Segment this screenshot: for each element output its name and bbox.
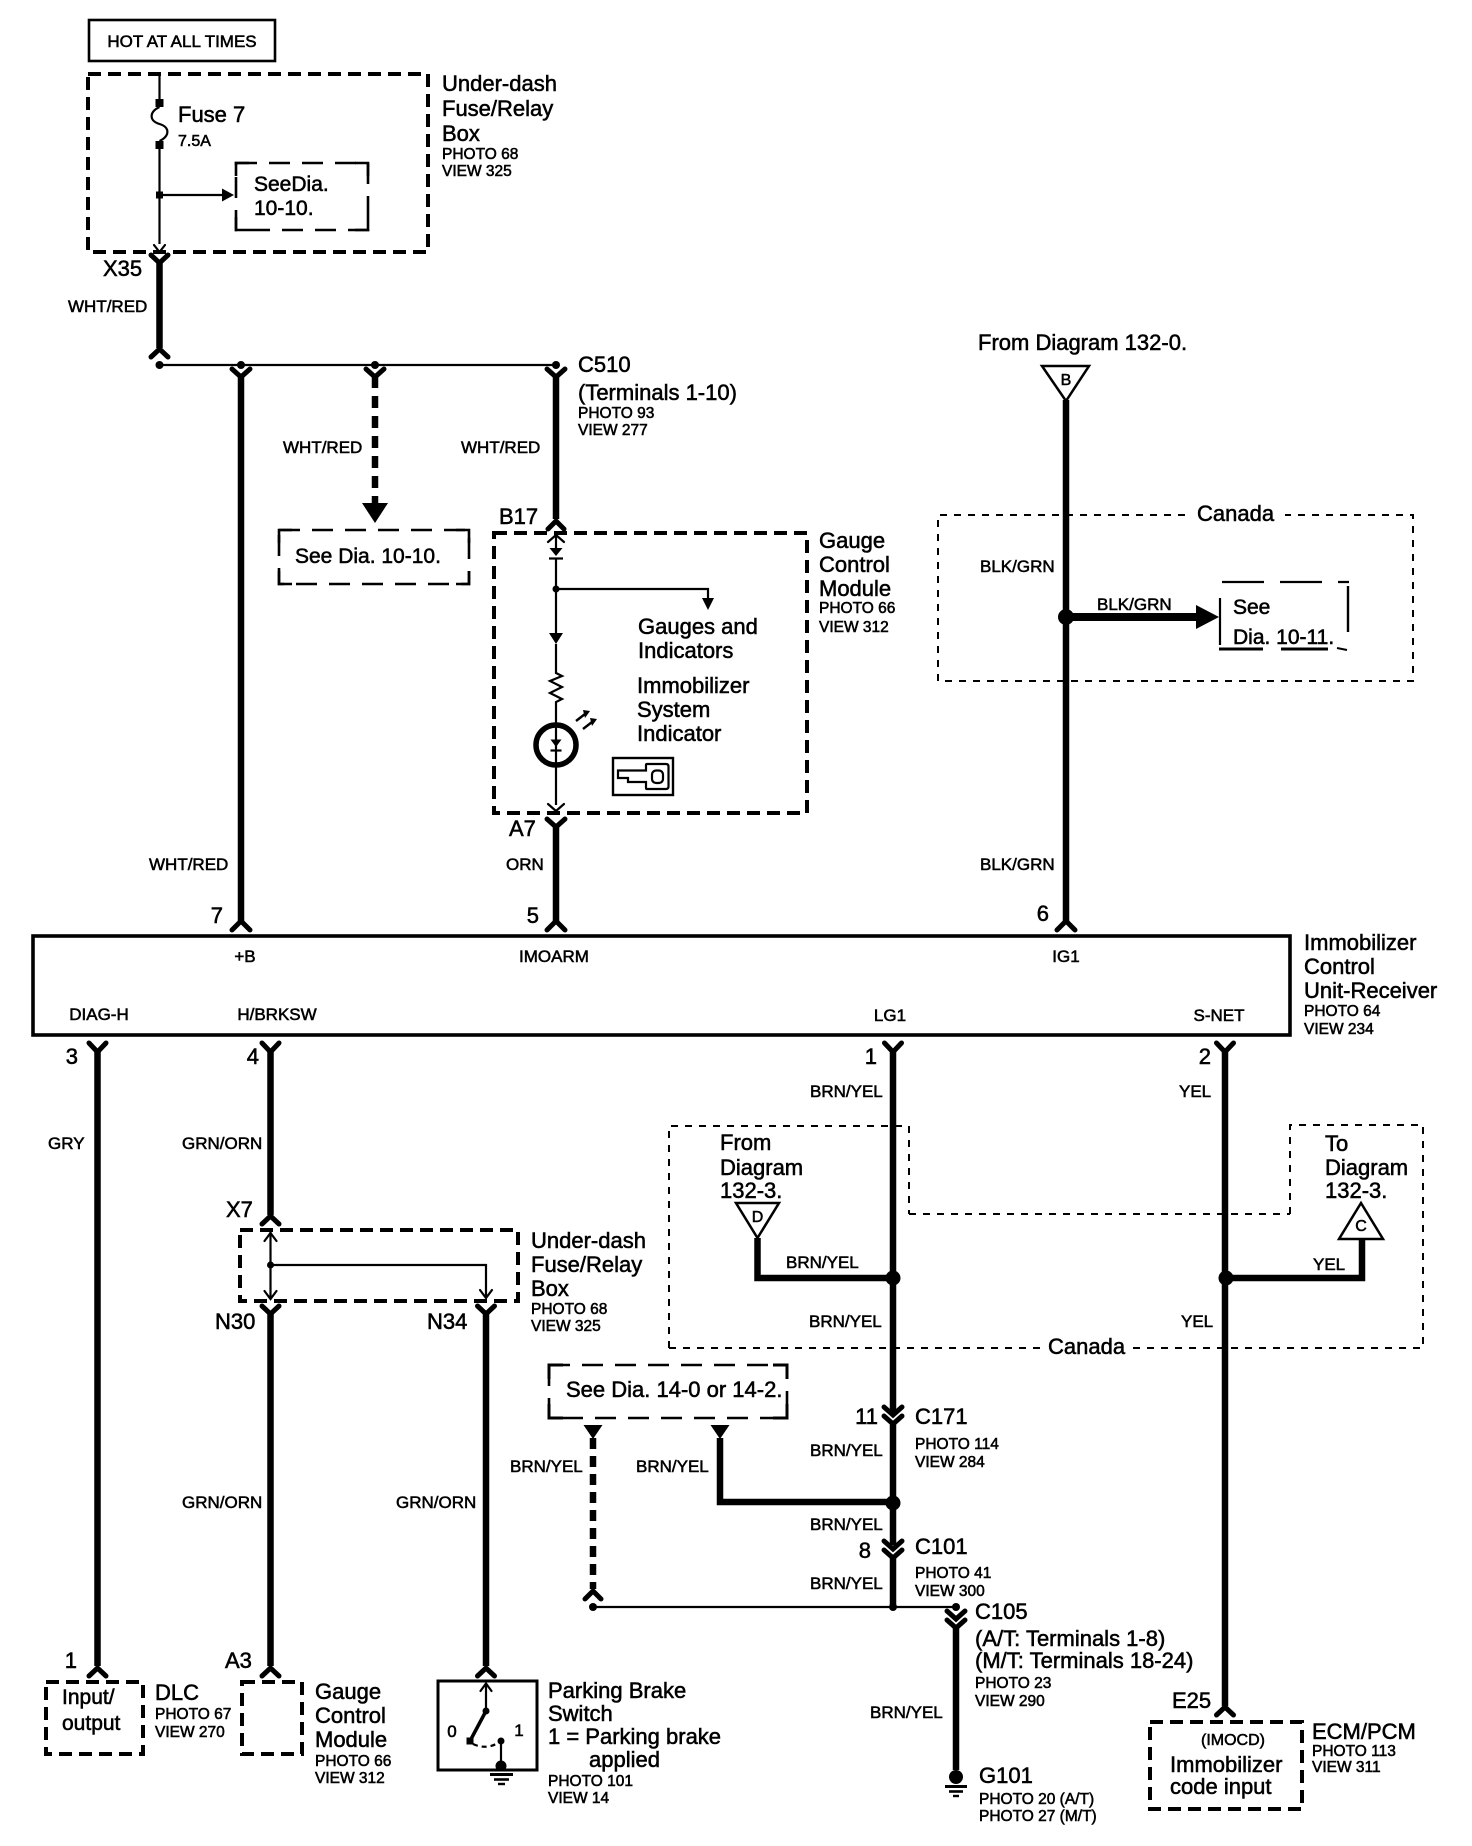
ground G101 (945, 1763, 1097, 1825)
connector C105 (947, 1599, 1193, 1710)
pin 1 (865, 1043, 902, 1069)
reference box See Dia. 10-11. (1219, 582, 1349, 650)
wire GRY from pin 3 to DLC (48, 1051, 98, 1666)
svg-text:Gauges and: Gauges and (638, 614, 758, 639)
svg-text:N30: N30 (215, 1309, 255, 1334)
wire bottom bus (thin horizontal) (593, 1606, 956, 1608)
connector X7 (226, 1197, 279, 1224)
connector A7 (509, 816, 565, 841)
svg-text:1: 1 (865, 1044, 877, 1069)
svg-text:ORN: ORN (506, 855, 544, 874)
reference box SeeDia. 10-10. (236, 163, 368, 230)
svg-text:GRN/ORN: GRN/ORN (396, 1493, 476, 1512)
From Diagram 132-3 region (dashed) (669, 1126, 1290, 1348)
svg-text:PHOTO 66: PHOTO 66 (315, 1753, 391, 1770)
svg-text:GRN/ORN: GRN/ORN (182, 1134, 262, 1153)
wire YEL from main wire to C (1226, 1239, 1362, 1278)
wire YEL from pin 2 to E25 (1179, 1051, 1225, 1706)
node bus junction 2 (237, 361, 245, 369)
svg-text:PHOTO 68: PHOTO 68 (531, 1301, 607, 1318)
svg-text:PHOTO 93: PHOTO 93 (578, 405, 654, 422)
parking brake switch box (438, 1681, 537, 1770)
wire WHT/RED dashed branch to see-dia 10-10 (362, 369, 540, 523)
wire BRN/YEL dashed from see dia 14-0 (510, 1438, 601, 1599)
node bus junction 3 (371, 361, 379, 369)
node X7 internal junction (267, 1262, 274, 1269)
svg-text:VIEW 270: VIEW 270 (155, 1724, 225, 1741)
pin 5 (527, 903, 565, 930)
svg-text:See: See (1233, 596, 1270, 619)
diode arrow on indicator branch (549, 633, 563, 644)
node BLK/GRN junction (1058, 609, 1074, 625)
svg-text:Indicator: Indicator (637, 721, 721, 746)
wire GRN/ORN from N30 to A3 (182, 1314, 271, 1666)
svg-text:BRN/YEL: BRN/YEL (810, 1515, 883, 1534)
svg-text:PHOTO 27 (M/T): PHOTO 27 (M/T) (979, 1808, 1097, 1825)
svg-text:PHOTO 66: PHOTO 66 (819, 600, 895, 617)
gauge control module box (dashed, lower) (242, 1682, 302, 1754)
off-page triangle C (1339, 1203, 1383, 1239)
svg-text:10-10.: 10-10. (254, 197, 314, 220)
svg-text:PHOTO 41: PHOTO 41 (915, 1565, 991, 1582)
svg-text:Gauge: Gauge (819, 528, 885, 553)
svg-text:Canada: Canada (1197, 501, 1275, 526)
svg-text:From: From (720, 1130, 771, 1155)
node gauge module junction (553, 586, 560, 593)
svg-text:Indicators: Indicators (638, 638, 733, 663)
svg-text:BRN/YEL: BRN/YEL (810, 1082, 883, 1101)
gauge control module (dashed box) (494, 533, 807, 813)
svg-text:B17: B17 (499, 504, 538, 529)
svg-text:VIEW 277: VIEW 277 (578, 422, 648, 439)
connector C171 (855, 1404, 999, 1471)
under-dash fuse/relay box (dashed component box, top) (88, 74, 428, 252)
parking brake switch internals (447, 1684, 523, 1785)
ECM/PCM label (1312, 1719, 1416, 1776)
connector pin 1 DLC (65, 1648, 106, 1676)
svg-text:YEL: YEL (1181, 1312, 1213, 1331)
svg-text:GRN/ORN: GRN/ORN (182, 1493, 262, 1512)
svg-text:0: 0 (447, 1722, 456, 1741)
svg-text:A7: A7 (509, 816, 536, 841)
svg-text:Under-dash: Under-dash (442, 71, 557, 96)
svg-text:C105: C105 (975, 1599, 1028, 1624)
svg-text:ECM/PCM: ECM/PCM (1312, 1719, 1416, 1744)
connector B17 (499, 504, 564, 529)
svg-text:BRN/YEL: BRN/YEL (510, 1457, 583, 1476)
DLC label (155, 1680, 231, 1741)
under-dash fuse/relay box (dashed, lower) (240, 1230, 518, 1301)
under-dash fuse/relay box label (442, 71, 557, 180)
svg-text:8: 8 (859, 1538, 871, 1563)
svg-text:1: 1 (65, 1648, 77, 1673)
svg-text:PHOTO 64: PHOTO 64 (1304, 1003, 1381, 1020)
wire BRN/YEL from D to main wire (758, 1238, 894, 1278)
wire exit from gauge module (548, 804, 564, 811)
svg-text:Diagram: Diagram (720, 1155, 803, 1180)
node bus junction 1 (156, 361, 164, 369)
svg-text:Gauge: Gauge (315, 1679, 381, 1704)
svg-text:C: C (1355, 1218, 1367, 1235)
ECM/PCM box (dashed) (1150, 1722, 1302, 1809)
wire BLK/GRN from B to pin 6 (1063, 400, 1070, 921)
arrow down to X35 (154, 245, 165, 252)
immobilizer control unit-receiver label (1304, 930, 1437, 1038)
pin 2 (1199, 1043, 1234, 1069)
wire BRN/YEL C105 to G101 (870, 1627, 956, 1770)
svg-text:PHOTO 67: PHOTO 67 (155, 1706, 231, 1723)
svg-text:Control: Control (1304, 954, 1375, 979)
svg-text:X7: X7 (226, 1197, 253, 1222)
wire GRN/ORN from pin 4 to X7 (182, 1051, 271, 1215)
svg-text:A3: A3 (225, 1648, 252, 1673)
svg-text:G101: G101 (979, 1763, 1033, 1788)
To Diagram 132-3 region (dashed) (1290, 1125, 1423, 1348)
svg-text:See Dia. 14-0 or 14-2.: See Dia. 14-0 or 14-2. (566, 1377, 782, 1402)
svg-text:YEL: YEL (1313, 1255, 1345, 1274)
svg-text:VIEW 234: VIEW 234 (1304, 1021, 1374, 1038)
svg-text:Switch: Switch (548, 1701, 613, 1726)
node bottom bus right C105 (952, 1603, 960, 1611)
Canada boundary line (lower) (669, 1334, 1423, 1359)
svg-text:Module: Module (819, 576, 891, 601)
svg-text:Diagram: Diagram (1325, 1155, 1408, 1180)
svg-text:See Dia. 10-10.: See Dia. 10-10. (295, 545, 441, 568)
svg-text:SeeDia.: SeeDia. (254, 173, 329, 196)
svg-text:BRN/YEL: BRN/YEL (636, 1457, 709, 1476)
wire BRN/YEL C101 down to bottom bus (810, 1557, 893, 1607)
svg-text:3: 3 (66, 1044, 78, 1069)
wire ORN from A7 to pin 5 (506, 827, 556, 921)
svg-text:WHT/RED: WHT/RED (461, 438, 540, 457)
svg-text:(Terminals 1-10): (Terminals 1-10) (578, 380, 737, 405)
svg-text:Fuse 7: Fuse 7 (178, 102, 245, 127)
svg-text:132-3.: 132-3. (720, 1178, 782, 1203)
svg-text:Dia. 10-11.: Dia. 10-11. (1233, 626, 1334, 649)
svg-text:1 = Parking brake: 1 = Parking brake (548, 1724, 721, 1749)
svg-text:DLC: DLC (155, 1680, 199, 1705)
wire BRN/YEL from pin 1 (809, 1051, 893, 1412)
svg-text:D: D (752, 1209, 764, 1226)
node bottom bus left (589, 1603, 597, 1611)
svg-text:132-3.: 132-3. (1325, 1178, 1387, 1203)
svg-text:Module: Module (315, 1727, 387, 1752)
svg-text:(IMOCD): (IMOCD) (1201, 1732, 1265, 1749)
reference box See Dia. 14-0 or 14-2. (549, 1365, 787, 1418)
wire WHT/RED from X35 to bus (68, 262, 168, 357)
node fuse output junction (156, 192, 163, 199)
svg-text:C171: C171 (915, 1404, 968, 1429)
svg-text:BRN/YEL: BRN/YEL (809, 1312, 882, 1331)
wire GRN/ORN from N34 to parking brake switch (396, 1314, 486, 1666)
svg-text:PHOTO 68: PHOTO 68 (442, 146, 518, 163)
svg-text:Immobilizer: Immobilizer (637, 673, 749, 698)
svg-text:YEL: YEL (1179, 1082, 1211, 1101)
LED immobilizer system indicator (536, 706, 597, 805)
svg-text:Control: Control (819, 552, 890, 577)
svg-text:BLK/GRN: BLK/GRN (980, 557, 1055, 576)
svg-text:H/BRKSW: H/BRKSW (237, 1005, 316, 1024)
svg-text:GRY: GRY (48, 1134, 85, 1153)
wire bus (thin horizontal) (160, 364, 557, 366)
fuse 7 (7.5A) (152, 74, 246, 244)
gauge control module lower label (315, 1679, 391, 1787)
svg-text:VIEW 312: VIEW 312 (819, 619, 889, 636)
svg-text:PHOTO 23: PHOTO 23 (975, 1675, 1051, 1692)
connector C101 (859, 1534, 992, 1600)
svg-text:7: 7 (211, 903, 223, 928)
svg-text:applied: applied (589, 1747, 660, 1772)
svg-text:C510: C510 (578, 352, 631, 377)
svg-text:BRN/YEL: BRN/YEL (870, 1703, 943, 1722)
svg-text:output: output (62, 1712, 121, 1735)
node BRN/YEL junction (886, 1271, 901, 1286)
svg-text:WHT/RED: WHT/RED (149, 855, 228, 874)
svg-text:HOT AT ALL TIMES: HOT AT ALL TIMES (107, 32, 256, 51)
svg-text:Fuse/Relay: Fuse/Relay (442, 96, 553, 121)
svg-text:Immobilizer: Immobilizer (1304, 930, 1416, 955)
svg-text:2: 2 (1199, 1044, 1211, 1069)
svg-text:11: 11 (855, 1404, 878, 1429)
svg-text:WHT/RED: WHT/RED (68, 297, 147, 316)
svg-text:PHOTO 20 (A/T): PHOTO 20 (A/T) (979, 1791, 1094, 1808)
svg-text:6: 6 (1037, 901, 1049, 926)
resistor in gauge module (550, 673, 562, 706)
arrow down from see dia 14-0 (left) (584, 1425, 603, 1439)
svg-text:X35: X35 (103, 256, 142, 281)
immobilizer control unit-receiver box (33, 936, 1290, 1035)
under-dash fuse/relay box lower label (531, 1228, 646, 1335)
svg-text:S-NET: S-NET (1194, 1006, 1245, 1025)
svg-text:(M/T: Terminals 18-24): (M/T: Terminals 18-24) (975, 1648, 1193, 1673)
svg-text:BLK/GRN: BLK/GRN (1097, 595, 1172, 614)
svg-text:VIEW 312: VIEW 312 (315, 1770, 385, 1787)
connector X35 (103, 255, 168, 281)
wire WHT/RED to gauge module B17 (547, 369, 565, 519)
node junction with 14-0 branch (886, 1496, 901, 1511)
wire entry into gauge module (548, 533, 564, 633)
gauge control module label (819, 528, 895, 636)
DLC box (dashed) (46, 1682, 143, 1754)
wire BRN/YEL C171 to C101 (810, 1423, 893, 1545)
connector N30 (215, 1306, 279, 1334)
key icon (613, 758, 673, 795)
connector N34 (427, 1306, 495, 1334)
svg-text:C101: C101 (915, 1534, 968, 1559)
connector label C510 (578, 352, 737, 439)
connector into parking brake switch (478, 1668, 495, 1676)
svg-text:VIEW 300: VIEW 300 (915, 1583, 985, 1600)
svg-text:BRN/YEL: BRN/YEL (810, 1441, 883, 1460)
svg-text:Control: Control (315, 1703, 386, 1728)
arrow to see-dia 10-10 reference (160, 189, 235, 202)
power source label box HOT AT ALL TIMES (89, 20, 275, 61)
node YEL junction (1219, 1271, 1234, 1286)
svg-text:IMOARM: IMOARM (519, 947, 589, 966)
svg-text:Box: Box (442, 121, 480, 146)
node bottom bus middle (889, 1603, 897, 1611)
svg-text:From Diagram 132-0.: From Diagram 132-0. (978, 330, 1187, 355)
immobilizer system indicator label (637, 673, 749, 746)
svg-text:VIEW 284: VIEW 284 (915, 1454, 985, 1471)
arrow down from see dia 14-0 (right) (711, 1425, 730, 1439)
svg-text:Fuse/Relay: Fuse/Relay (531, 1252, 642, 1277)
svg-text:BRN/YEL: BRN/YEL (810, 1574, 883, 1593)
off-page triangle D (736, 1203, 779, 1238)
svg-text:Canada: Canada (1048, 1334, 1126, 1359)
svg-text:VIEW 290: VIEW 290 (975, 1693, 1045, 1710)
svg-text:Parking Brake: Parking Brake (548, 1678, 686, 1703)
svg-text:PHOTO 114: PHOTO 114 (915, 1436, 999, 1453)
svg-text:Input/: Input/ (62, 1686, 115, 1709)
svg-text:E25: E25 (1172, 1688, 1211, 1713)
svg-text:LG1: LG1 (874, 1006, 906, 1025)
svg-text:VIEW 14: VIEW 14 (548, 1790, 610, 1807)
pin 4 (247, 1043, 279, 1069)
svg-text:N34: N34 (427, 1309, 467, 1334)
connector A3 (225, 1648, 279, 1676)
pin 3 (66, 1043, 106, 1069)
svg-text:PHOTO 113: PHOTO 113 (1312, 1743, 1396, 1760)
parking brake switch label (548, 1678, 721, 1807)
Canada region box (upper) (938, 501, 1413, 681)
svg-text:BRN/YEL: BRN/YEL (786, 1253, 859, 1272)
svg-text:5: 5 (527, 903, 539, 928)
svg-text:1: 1 (514, 1721, 523, 1740)
svg-text:code input: code input (1170, 1774, 1272, 1799)
svg-text:Under-dash: Under-dash (531, 1228, 646, 1253)
wire inside lower fuse box (265, 1232, 493, 1299)
wire BRN/YEL elbow to main wire (636, 1438, 893, 1502)
wire branch to gauges and indicators (556, 589, 758, 663)
svg-text:VIEW 325: VIEW 325 (442, 163, 512, 180)
pin 7 (211, 903, 250, 930)
pin 6 (1037, 901, 1075, 930)
connector E25 (1172, 1688, 1234, 1715)
node bus junction 4 C510 (552, 361, 560, 369)
svg-text:WHT/RED: WHT/RED (283, 438, 362, 457)
svg-text:BLK/GRN: BLK/GRN (980, 855, 1055, 874)
svg-text:To: To (1325, 1131, 1348, 1156)
svg-text:VIEW 311: VIEW 311 (1312, 1759, 1381, 1776)
wire WHT/RED pin 7 branch (232, 369, 362, 921)
svg-text:+B: +B (234, 947, 255, 966)
svg-text:DIAG-H: DIAG-H (69, 1005, 129, 1024)
off-page triangle B (1042, 366, 1089, 401)
svg-text:PHOTO 101: PHOTO 101 (548, 1773, 633, 1790)
svg-text:Unit-Receiver: Unit-Receiver (1304, 978, 1437, 1003)
arrow BLK/GRN to see dia 10-11 (1066, 595, 1219, 629)
svg-text:7.5A: 7.5A (178, 133, 211, 150)
svg-text:System: System (637, 697, 710, 722)
svg-text:Box: Box (531, 1276, 569, 1301)
svg-text:4: 4 (247, 1044, 259, 1069)
svg-text:B: B (1061, 372, 1072, 389)
svg-text:IG1: IG1 (1052, 947, 1079, 966)
svg-text:VIEW 325: VIEW 325 (531, 1318, 601, 1335)
reference box See Dia. 10-10. (279, 530, 469, 584)
